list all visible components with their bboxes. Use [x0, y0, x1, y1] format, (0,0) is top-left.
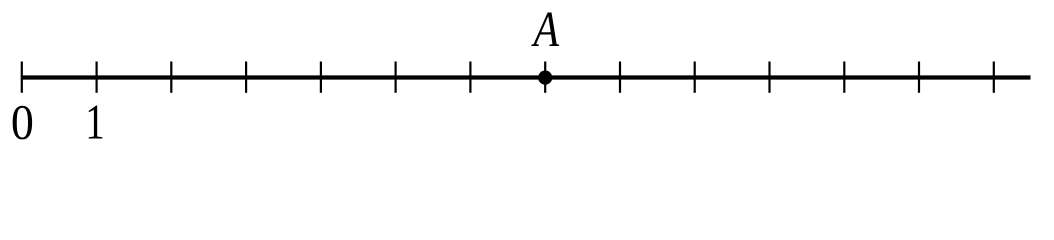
svg-text:A: A — [531, 1, 560, 58]
tick 9 — [694, 62, 696, 93]
tick 3 — [245, 62, 247, 93]
tick 13 — [993, 62, 995, 93]
point A dot — [538, 71, 552, 85]
svg-text:0: 0 — [11, 95, 34, 146]
tick 5 — [395, 62, 397, 93]
tick 7 (point A) — [544, 62, 546, 93]
tick 11 — [843, 62, 845, 93]
tick 8 — [619, 62, 621, 93]
svg-text:1: 1 — [85, 94, 105, 146]
tick 10 — [768, 62, 770, 93]
tick 4 — [320, 62, 322, 93]
tick 1 — [95, 62, 97, 93]
tick 2 — [170, 62, 172, 93]
tick 12 — [918, 62, 920, 93]
tick 6 — [469, 62, 471, 93]
tick 0 — [21, 62, 23, 93]
number line axis — [21, 75, 1031, 79]
